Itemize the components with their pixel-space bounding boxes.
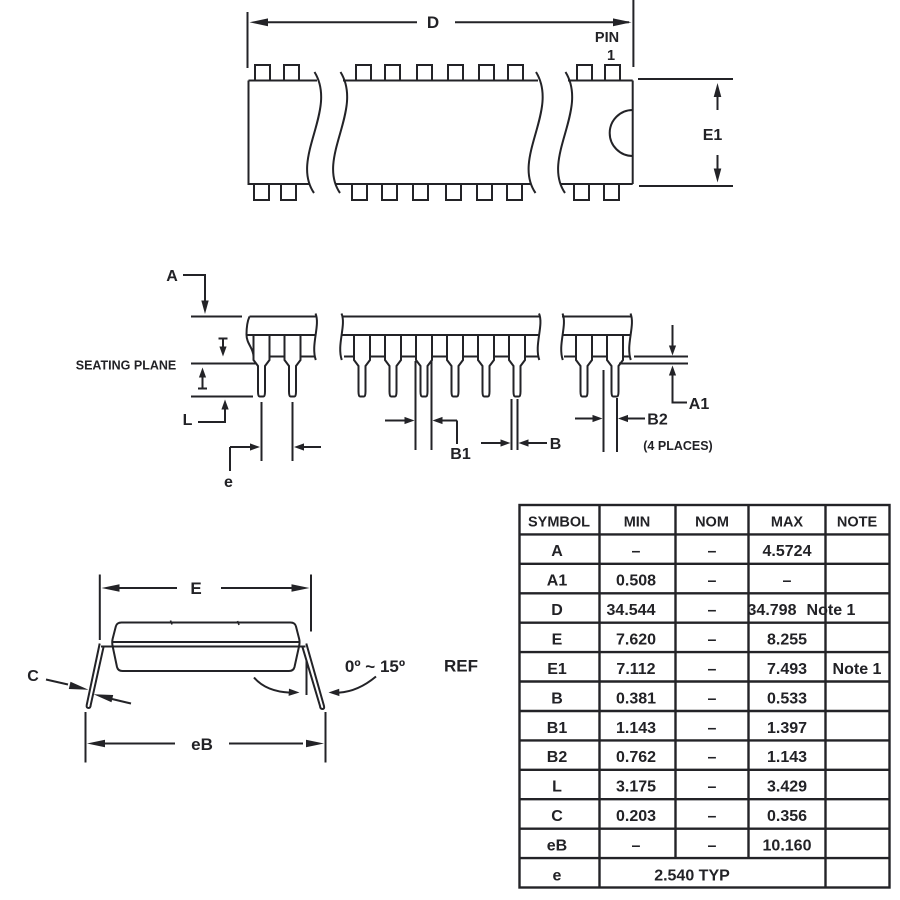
svg-text:–: – [708,602,717,619]
svg-text:–: – [708,661,717,678]
svg-text:C: C [551,808,563,825]
svg-text:E: E [190,579,201,598]
svg-text:SYMBOL: SYMBOL [528,515,590,531]
svg-text:A1: A1 [547,573,568,590]
table text [528,515,882,885]
package body (end view) [112,623,299,672]
package body (top view) [249,81,633,185]
lead tip line [191,396,253,398]
svg-text:–: – [708,573,717,590]
dimension B1 extension lines [415,361,417,450]
svg-text:L: L [552,779,562,796]
svg-text:0.203: 0.203 [616,808,656,825]
svg-text:1.143: 1.143 [616,720,656,737]
dimension e extension lines [261,402,263,461]
dimension A1 reference lines [634,356,688,358]
pin-1 index notch [610,110,633,156]
label L leader with arrow [198,409,225,422]
svg-text:7.112: 7.112 [616,661,655,678]
svg-text:–: – [632,838,641,855]
A reference line (package top) [191,316,242,318]
svg-text:PIN: PIN [595,30,619,46]
dimension B1 arrows and leader [385,420,405,422]
dimension A1 arrows and leader [672,325,674,346]
leads segment 2 [354,335,370,397]
svg-text:B1: B1 [450,446,471,463]
dimension E1 arrows [717,95,719,110]
label A leader with arrow [183,275,205,301]
svg-text:0.533: 0.533 [767,691,807,708]
svg-text:–: – [632,543,641,560]
svg-text:E1: E1 [547,661,567,678]
label C leader arrows [46,680,68,685]
svg-text:0.508: 0.508 [616,573,656,590]
svg-text:0.762: 0.762 [616,749,656,766]
leads segment 3 [576,335,592,397]
svg-text:L: L [183,412,193,429]
svg-text:e: e [553,868,562,885]
svg-text:34.544: 34.544 [607,602,656,619]
svg-text:34.798: 34.798 [748,602,797,619]
svg-text:–: – [708,749,717,766]
body parting line [113,641,300,643]
svg-text:–: – [708,779,717,796]
svg-text:–: – [708,632,717,649]
svg-text:–: – [708,543,717,560]
seating plane line [191,363,256,365]
svg-text:A: A [551,543,563,560]
leads segment 1 [254,335,270,397]
svg-text:B1: B1 [547,720,568,737]
dimension eB line with arrows [104,743,175,745]
svg-text:REF: REF [444,657,478,676]
dimension B extension lines [511,399,513,450]
svg-text:E1: E1 [703,127,723,144]
svg-text:–: – [708,838,717,855]
svg-text:3.429: 3.429 [767,779,807,796]
right lead (end view) [303,644,325,710]
dimension eB extension lines [85,712,87,763]
dimension E extension lines [99,575,101,641]
svg-text:10.160: 10.160 [763,838,812,855]
top-row pins [255,65,620,80]
svg-text:E: E [552,632,563,649]
svg-text:B2: B2 [547,749,568,766]
dimension D extension lines [247,12,249,68]
side view body segment 2 [340,314,540,361]
svg-text:A: A [166,268,178,285]
svg-text:–: – [783,573,792,590]
angle arc right with arrow [339,677,376,693]
svg-text:MIN: MIN [624,515,651,531]
dimension e arrows and leader [230,446,251,448]
svg-text:SEATING PLANE: SEATING PLANE [76,359,176,373]
side view body segment 3 [561,314,632,361]
svg-text:2.540 TYP: 2.540 TYP [654,868,730,885]
svg-text:1.143: 1.143 [767,749,807,766]
lead frame line [101,646,306,648]
svg-text:1.397: 1.397 [767,720,807,737]
svg-text:C: C [27,668,39,685]
break lines (top view, left pair) [307,72,321,193]
side view body segment 1 [247,314,317,361]
svg-text:7.493: 7.493 [767,661,807,678]
svg-text:B: B [550,436,562,453]
left lead (end view) [87,644,104,709]
svg-text:–: – [708,808,717,825]
svg-text:A1: A1 [689,396,710,413]
svg-text:NOTE: NOTE [837,515,878,531]
dimension E line with arrows [118,587,177,589]
svg-text:–: – [708,720,717,737]
break lines (top view, right pair) [529,72,543,193]
svg-text:(4 PLACES): (4 PLACES) [643,439,712,453]
svg-text:Note 1: Note 1 [807,602,856,619]
bottom-row pins [254,185,619,201]
svg-text:MAX: MAX [771,515,804,531]
dimension B arrows [481,442,501,444]
dimension E1 extension lines [638,78,733,80]
svg-text:D: D [427,13,439,32]
svg-text:4.5724: 4.5724 [763,543,812,560]
svg-text:3.175: 3.175 [616,779,656,796]
svg-text:eB: eB [191,735,213,754]
svg-text:eB: eB [547,838,567,855]
svg-text:B2: B2 [647,412,668,429]
svg-text:1: 1 [607,48,615,64]
svg-text:0.356: 0.356 [767,808,807,825]
angle arc left with arrow [254,678,290,693]
svg-text:Note 1: Note 1 [833,661,882,678]
svg-text:0.381: 0.381 [616,691,656,708]
angle reference vertical line [306,661,308,695]
svg-text:B: B [551,691,563,708]
dimension B2 extension lines [603,370,605,452]
svg-text:7.620: 7.620 [616,632,656,649]
svg-text:e: e [224,474,233,491]
mold marks on body top edge [171,621,173,625]
arrow to seating plane (from below) [198,388,207,390]
dimension D line with arrowheads [267,21,417,23]
svg-text:8.255: 8.255 [767,632,807,649]
svg-text:NOM: NOM [695,515,729,531]
dimension B2 arrows [575,418,593,420]
svg-text:D: D [551,602,563,619]
arrow to seating plane (from above) [219,338,228,340]
svg-text:–: – [708,691,717,708]
svg-text:0º ~ 15º: 0º ~ 15º [345,657,405,676]
